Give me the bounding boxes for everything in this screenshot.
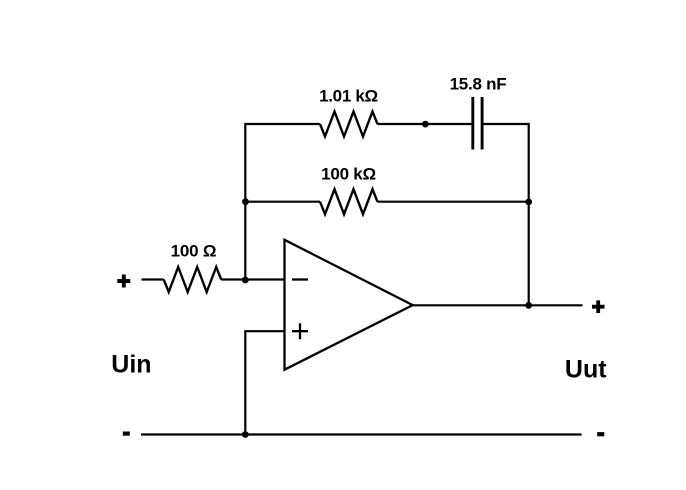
op-amp U1 triangle: [285, 240, 413, 370]
wire top feedback branch left segment: [245, 124, 320, 280]
capacitor C1 plates: [471, 97, 474, 150]
wire input lead: [142, 278, 164, 280]
wire middle feedback branch: [245, 201, 320, 203]
wire output: [413, 304, 583, 306]
node junction dot middle-right: [525, 199, 532, 206]
node junction dot output: [525, 302, 532, 309]
node junction dot inverting input: [242, 277, 249, 284]
wire from R1 to op-amp inverting input: [221, 278, 284, 280]
node junction dot between R2 and C1: [422, 121, 429, 128]
svg-text:1.01 kΩ: 1.01 kΩ: [319, 87, 378, 106]
terminal plus sign output: [592, 300, 605, 313]
svg-text:100 Ω: 100 Ω: [171, 242, 217, 261]
svg-text:Uut: Uut: [565, 356, 607, 384]
node junction dot bottom rail: [242, 431, 249, 438]
wire bottom ground rail: [141, 433, 582, 435]
resistor R2 1.01 kOhm zigzag: [320, 112, 378, 137]
wire non-inverting input: [245, 331, 284, 434]
resistor R1 100 Ohm zigzag: [164, 267, 222, 292]
resistor R3 100 kOhm zigzag: [320, 189, 378, 214]
svg-text:15.8 nF: 15.8 nF: [450, 75, 507, 94]
wire from capacitor to right rail: [483, 123, 528, 125]
op-amp plus input sign: [292, 323, 308, 339]
wire from R2 to capacitor: [378, 123, 472, 125]
terminal minus sign output: [597, 432, 604, 436]
svg-text:Uin: Uin: [111, 351, 151, 379]
wire right feedback vertical: [528, 123, 530, 305]
terminal plus sign input: [117, 275, 130, 288]
svg-text:100 kΩ: 100 kΩ: [321, 165, 376, 184]
wire from R3 to right rail: [378, 201, 529, 203]
op-amp minus input sign: [292, 278, 308, 280]
node junction dot middle-left: [242, 198, 249, 205]
terminal minus sign input: [123, 432, 130, 436]
